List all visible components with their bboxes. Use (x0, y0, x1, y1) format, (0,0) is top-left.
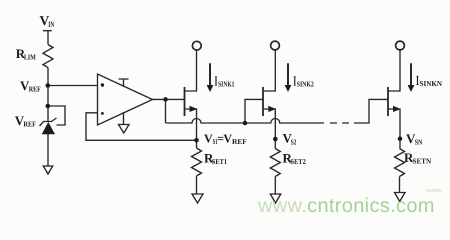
svg-text:I: I (215, 74, 218, 89)
svg-text:SINK1: SINK1 (218, 79, 234, 88)
svg-text:SET1: SET1 (212, 157, 227, 166)
svg-text:S2: S2 (291, 137, 297, 146)
svg-text:REF: REF (29, 85, 42, 94)
svg-text:REF: REF (23, 120, 36, 129)
svg-text:IN: IN (48, 20, 54, 29)
svg-text:SN: SN (415, 138, 423, 147)
svg-text:LIM: LIM (24, 53, 36, 62)
svg-text:SETN: SETN (413, 157, 432, 166)
svg-text:SINK2: SINK2 (297, 79, 314, 88)
svg-text:www.cntronics.com: www.cntronics.com (257, 195, 435, 217)
svg-text:REF: REF (232, 137, 247, 146)
svg-text:SINKN: SINKN (420, 79, 443, 88)
svg-text:SET2: SET2 (290, 157, 306, 166)
